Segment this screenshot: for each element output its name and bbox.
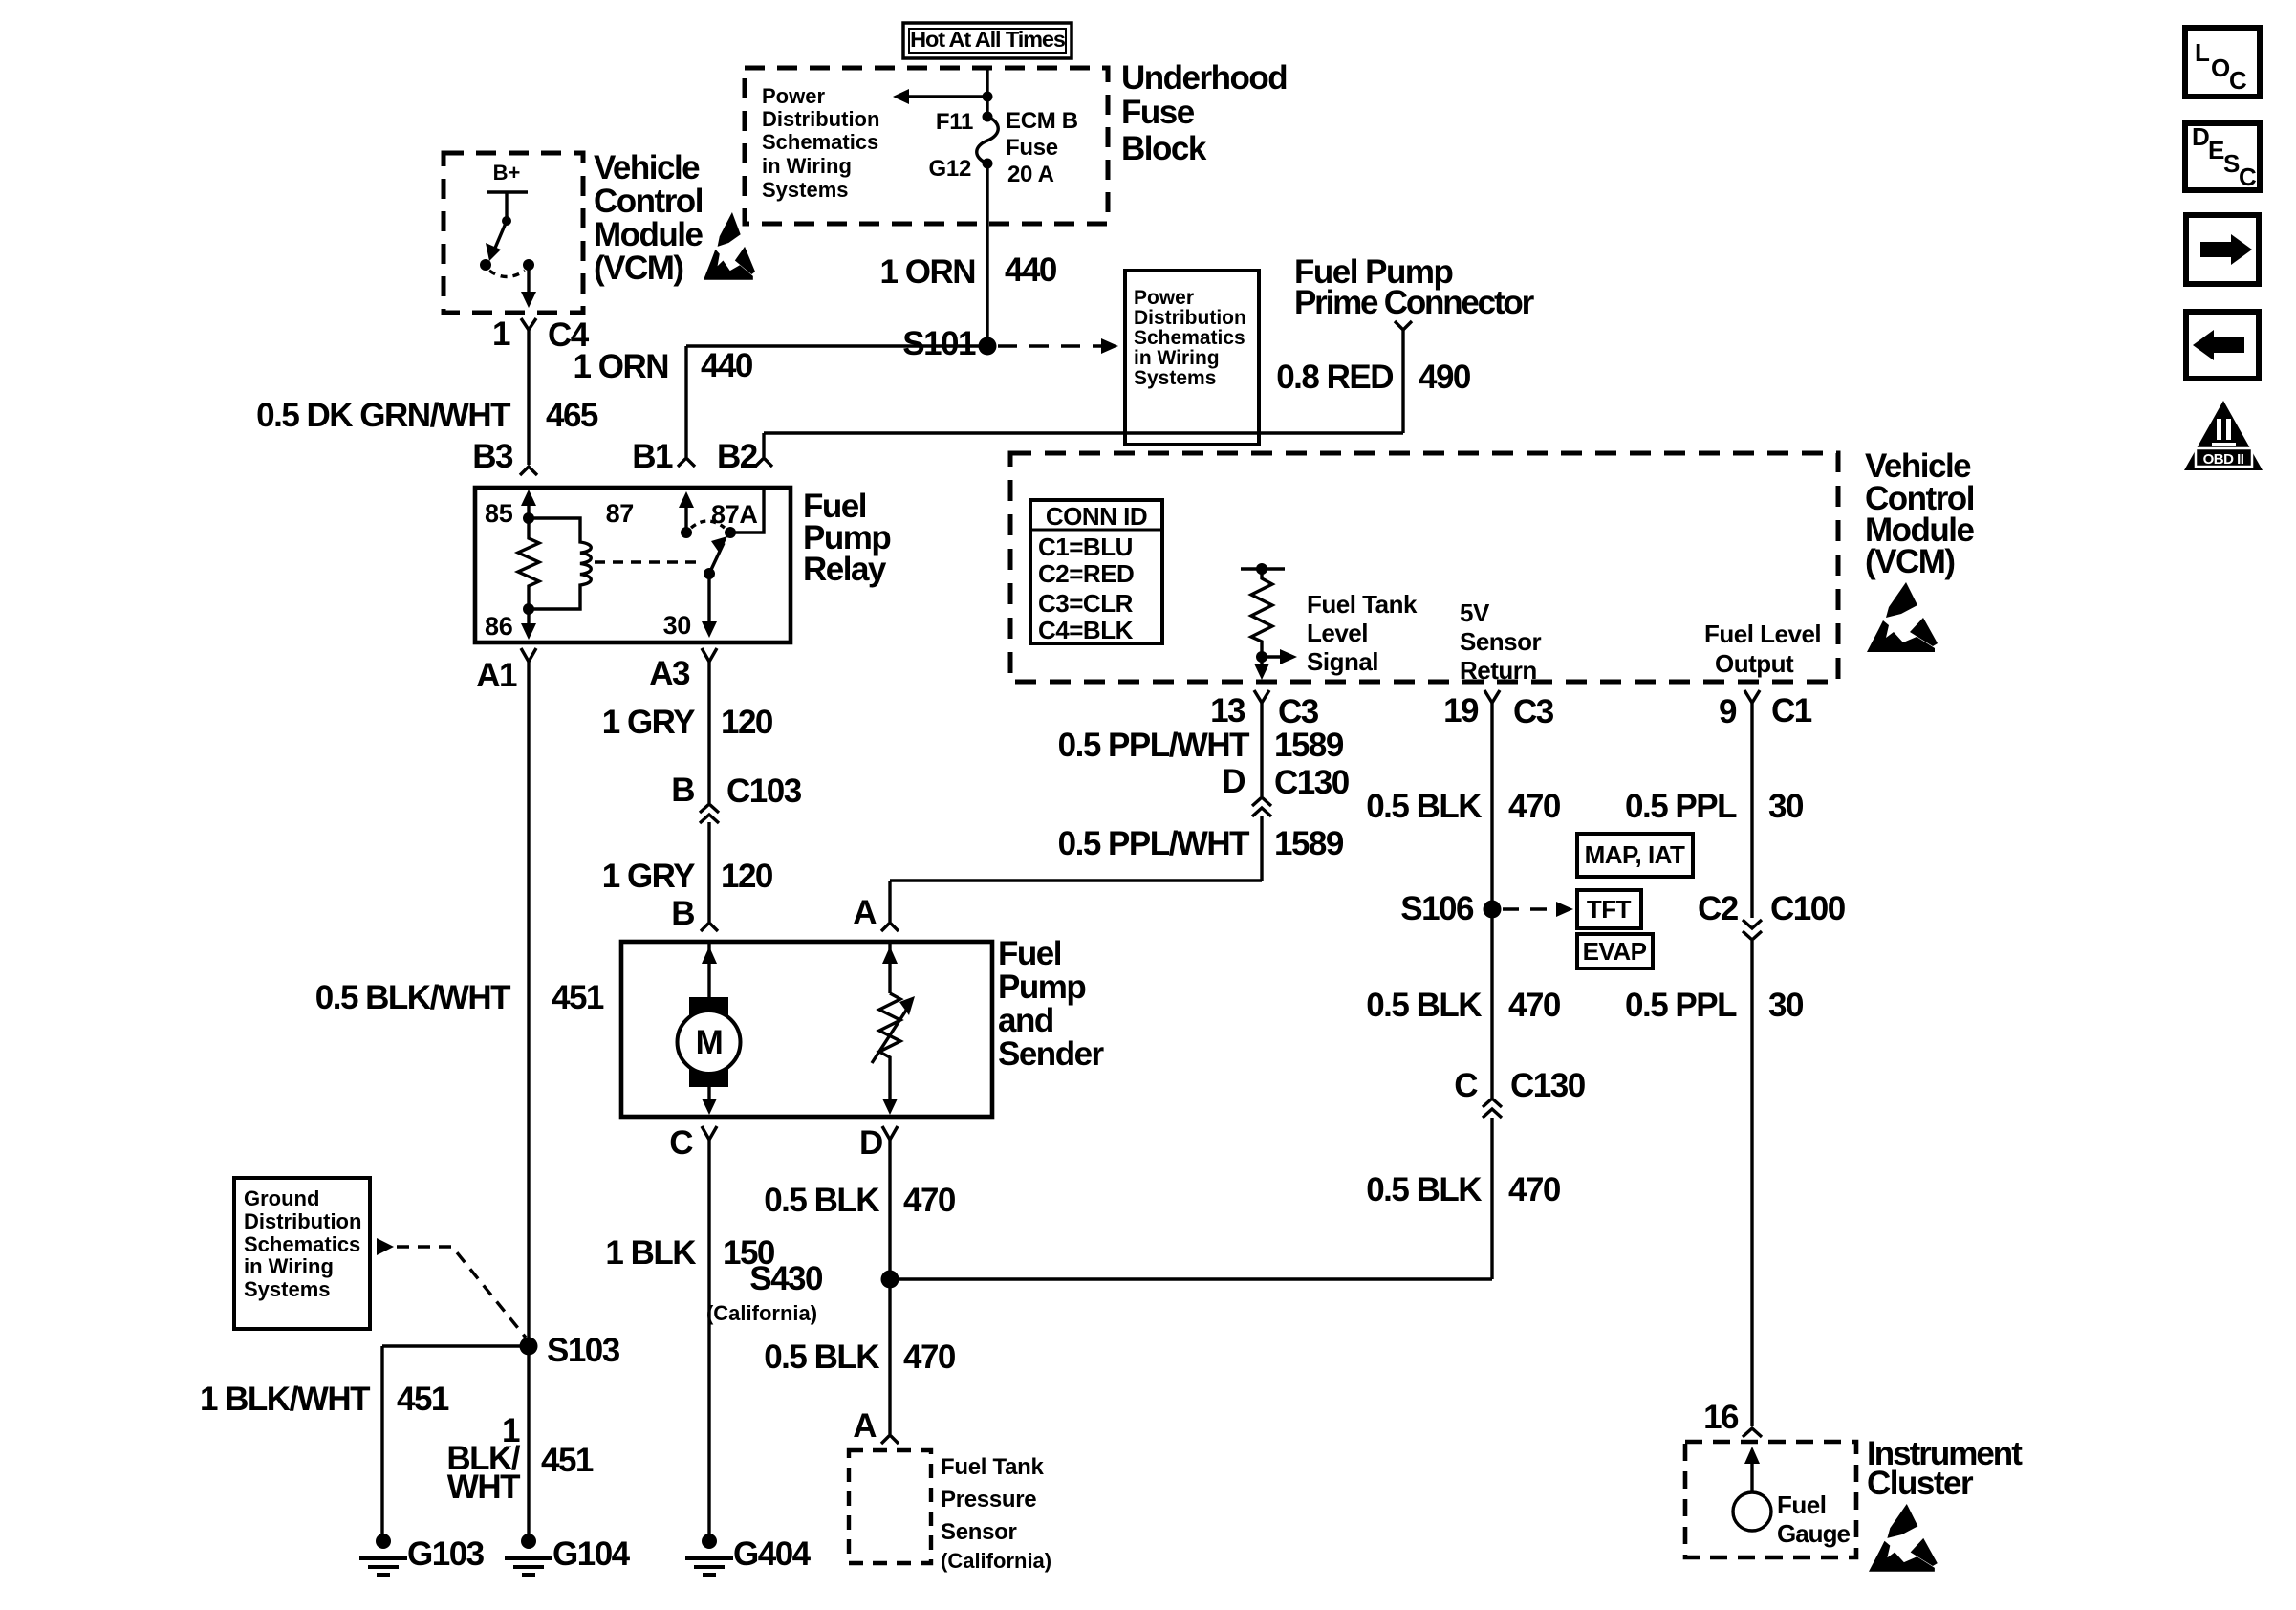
svg-text:Distribution: Distribution: [244, 1209, 361, 1233]
svg-text:ECM B: ECM B: [1006, 108, 1078, 134]
svg-text:C1=BLU: C1=BLU: [1038, 533, 1133, 561]
svg-text:Power: Power: [762, 84, 825, 108]
svg-text:MAP, IAT: MAP, IAT: [1585, 840, 1685, 869]
svg-text:0.5 BLK: 0.5 BLK: [764, 1182, 879, 1219]
svg-text:Signal: Signal: [1307, 647, 1378, 676]
svg-text:Underhood: Underhood: [1121, 59, 1287, 97]
svg-text:Pressure: Pressure: [941, 1487, 1036, 1512]
svg-text:470: 470: [903, 1182, 956, 1219]
svg-text:S: S: [2223, 149, 2240, 178]
svg-text:16: 16: [1703, 1399, 1739, 1436]
svg-text:S106: S106: [1400, 890, 1474, 927]
svg-text:470: 470: [903, 1338, 956, 1376]
svg-text:WHT: WHT: [447, 1469, 520, 1506]
svg-text:in Wiring: in Wiring: [762, 154, 852, 178]
svg-text:O: O: [2211, 54, 2230, 82]
svg-text:B2: B2: [717, 438, 758, 475]
svg-text:B: B: [671, 895, 694, 932]
svg-text:(VCM): (VCM): [1865, 543, 1955, 580]
svg-text:G404: G404: [733, 1535, 812, 1573]
svg-text:30: 30: [1768, 987, 1804, 1024]
svg-text:85: 85: [485, 499, 513, 528]
svg-text:C: C: [2229, 66, 2247, 95]
svg-text:Fuel Tank: Fuel Tank: [1307, 590, 1418, 619]
svg-text:Cluster: Cluster: [1867, 1465, 1974, 1502]
svg-text:470: 470: [1508, 987, 1561, 1024]
svg-text:0.5 PPL/WHT: 0.5 PPL/WHT: [1058, 825, 1249, 862]
svg-text:Pump: Pump: [998, 968, 1085, 1006]
svg-text:1 ORN: 1 ORN: [574, 348, 668, 385]
svg-text:C2: C2: [1698, 890, 1739, 927]
svg-text:Fuel Level: Fuel Level: [1704, 620, 1821, 648]
svg-text:87: 87: [606, 499, 634, 528]
svg-text:Fuel: Fuel: [1777, 1490, 1826, 1519]
svg-text:C3=CLR: C3=CLR: [1038, 589, 1134, 618]
svg-text:Distribution: Distribution: [1134, 307, 1246, 329]
svg-text:Schematics: Schematics: [762, 130, 878, 154]
svg-text:Output: Output: [1715, 649, 1794, 678]
svg-text:5V: 5V: [1460, 598, 1490, 627]
svg-text:Relay: Relay: [803, 551, 887, 588]
svg-text:C2=RED: C2=RED: [1038, 559, 1134, 588]
svg-text:C103: C103: [726, 772, 802, 810]
svg-text:Fuse: Fuse: [1006, 135, 1058, 161]
svg-text:1 ORN: 1 ORN: [880, 253, 975, 291]
svg-text:0.5 BLK: 0.5 BLK: [1366, 987, 1482, 1024]
svg-text:0.8 RED: 0.8 RED: [1276, 359, 1393, 396]
svg-text:Schematics: Schematics: [1134, 327, 1245, 349]
svg-text:0.5 PPL: 0.5 PPL: [1625, 788, 1737, 825]
svg-text:Module: Module: [594, 216, 704, 253]
svg-text:13: 13: [1210, 692, 1245, 729]
svg-text:S103: S103: [547, 1332, 620, 1369]
svg-text:Distribution: Distribution: [762, 107, 879, 131]
svg-text:Vehicle: Vehicle: [594, 149, 700, 186]
svg-text:1 GRY: 1 GRY: [602, 858, 695, 895]
svg-text:B1: B1: [632, 438, 673, 475]
svg-text:C1: C1: [1771, 692, 1812, 729]
svg-text:0.5 PPL/WHT: 0.5 PPL/WHT: [1058, 727, 1249, 764]
svg-text:9: 9: [1719, 693, 1737, 730]
svg-text:C: C: [669, 1124, 693, 1162]
svg-text:L: L: [2195, 38, 2210, 67]
svg-text:D: D: [2192, 122, 2209, 151]
svg-text:470: 470: [1508, 788, 1561, 825]
svg-text:A: A: [853, 1407, 877, 1445]
svg-text:B+: B+: [493, 161, 521, 185]
svg-text:C: C: [1454, 1067, 1478, 1104]
svg-text:and: and: [998, 1002, 1053, 1039]
svg-text:Sensor: Sensor: [1460, 627, 1542, 656]
svg-text:Sender: Sender: [998, 1035, 1105, 1073]
svg-text:C100: C100: [1770, 890, 1846, 927]
svg-text:30: 30: [663, 611, 691, 640]
svg-text:D: D: [1222, 763, 1245, 800]
svg-text:Return: Return: [1460, 656, 1537, 685]
svg-text:CONN ID: CONN ID: [1046, 502, 1147, 531]
svg-text:451: 451: [397, 1381, 449, 1418]
svg-text:1589: 1589: [1274, 825, 1344, 862]
svg-text:451: 451: [541, 1442, 594, 1479]
svg-text:1 BLK: 1 BLK: [605, 1234, 696, 1272]
svg-text:E: E: [2208, 136, 2224, 164]
svg-text:C3: C3: [1278, 693, 1319, 730]
svg-text:0.5 BLK/WHT: 0.5 BLK/WHT: [315, 979, 510, 1016]
svg-text:Control: Control: [594, 183, 703, 220]
svg-text:Ground: Ground: [244, 1186, 319, 1210]
svg-text:0.5 BLK: 0.5 BLK: [1366, 1171, 1482, 1208]
svg-text:0.5 PPL: 0.5 PPL: [1625, 987, 1737, 1024]
svg-text:20 A: 20 A: [1007, 162, 1054, 187]
svg-text:A3: A3: [649, 655, 690, 692]
svg-text:A: A: [853, 894, 877, 931]
svg-text:G103: G103: [407, 1535, 485, 1573]
svg-text:C3: C3: [1513, 693, 1554, 730]
svg-text:A1: A1: [476, 657, 517, 694]
svg-text:Power: Power: [1134, 287, 1194, 309]
svg-text:(California): (California): [941, 1549, 1051, 1573]
svg-text:451: 451: [552, 979, 604, 1016]
svg-text:Systems: Systems: [1134, 367, 1216, 389]
svg-text:Fuel Tank: Fuel Tank: [941, 1454, 1044, 1480]
svg-text:87A: 87A: [711, 500, 758, 529]
svg-text:F11: F11: [936, 109, 973, 135]
svg-text:465: 465: [546, 397, 598, 434]
svg-text:G104: G104: [552, 1535, 631, 1573]
svg-text:120: 120: [721, 858, 773, 895]
svg-text:490: 490: [1419, 359, 1471, 396]
svg-text:C130: C130: [1510, 1067, 1586, 1104]
svg-text:440: 440: [1005, 251, 1057, 289]
svg-text:Hot At All Times: Hot At All Times: [910, 27, 1066, 52]
svg-text:1 BLK/WHT: 1 BLK/WHT: [200, 1381, 370, 1418]
svg-text:1 GRY: 1 GRY: [602, 704, 695, 741]
svg-text:440: 440: [701, 347, 753, 384]
svg-text:TFT: TFT: [1587, 895, 1632, 924]
svg-text:Level: Level: [1307, 619, 1368, 647]
svg-text:470: 470: [1508, 1171, 1561, 1208]
svg-text:Systems: Systems: [244, 1277, 331, 1301]
svg-text:M: M: [696, 1024, 723, 1061]
svg-text:Prime Connector: Prime Connector: [1294, 284, 1535, 321]
svg-text:0.5 DK GRN/WHT: 0.5 DK GRN/WHT: [256, 397, 510, 434]
svg-text:Systems: Systems: [762, 178, 849, 202]
svg-text:Sensor: Sensor: [941, 1519, 1017, 1545]
svg-text:Block: Block: [1121, 130, 1207, 167]
svg-text:0.5 BLK: 0.5 BLK: [1366, 788, 1482, 825]
svg-text:C4=BLK: C4=BLK: [1038, 616, 1134, 644]
svg-text:Fuse: Fuse: [1121, 94, 1195, 131]
svg-text:19: 19: [1443, 692, 1479, 729]
svg-text:0.5 BLK: 0.5 BLK: [764, 1338, 879, 1376]
svg-text:(VCM): (VCM): [594, 250, 683, 287]
svg-text:Gauge: Gauge: [1777, 1519, 1850, 1548]
svg-text:Schematics: Schematics: [244, 1232, 360, 1256]
svg-text:EVAP: EVAP: [1583, 937, 1647, 966]
svg-text:OBD II: OBD II: [2203, 451, 2244, 468]
svg-text:C: C: [2239, 163, 2257, 191]
svg-text:1: 1: [492, 315, 510, 353]
svg-text:B3: B3: [472, 438, 513, 475]
svg-text:in Wiring: in Wiring: [244, 1254, 334, 1278]
svg-text:Fuel: Fuel: [998, 935, 1061, 972]
svg-text:in Wiring: in Wiring: [1134, 347, 1220, 369]
svg-text:G12: G12: [929, 156, 971, 182]
svg-text:120: 120: [721, 704, 773, 741]
svg-text:30: 30: [1768, 788, 1804, 825]
svg-text:C130: C130: [1274, 764, 1350, 801]
svg-text:S430: S430: [749, 1260, 823, 1297]
svg-text:86: 86: [485, 612, 513, 641]
svg-text:S101: S101: [902, 325, 976, 362]
svg-text:D: D: [859, 1124, 882, 1162]
svg-text:(California): (California): [706, 1301, 817, 1325]
svg-text:B: B: [671, 772, 694, 809]
svg-text:1589: 1589: [1274, 727, 1344, 764]
